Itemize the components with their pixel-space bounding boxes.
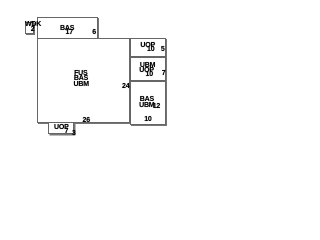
area BAS/UBM right box 3 [130, 81, 166, 125]
area UBM/UOP right box 2 [130, 57, 166, 81]
dim 7 (porch width) [65, 128, 69, 135]
area UOP bottom porch box [48, 122, 74, 134]
label BAS (right box 3) [140, 96, 154, 103]
label UOP (right box 1) [140, 42, 155, 49]
dim 10 (right box 1 width) [147, 46, 154, 53]
dim 7 (right box 2 height) [162, 70, 166, 77]
label UOP (porch) [54, 124, 69, 131]
area BAS top strip [37, 17, 98, 39]
dim 5 (right box 1 height) [161, 46, 165, 53]
dim 24 (main height) [122, 83, 129, 90]
dim 10 (right box 3 width) [144, 116, 151, 123]
area UOP right box 1 [130, 38, 166, 57]
dim 2 (WDK) [31, 26, 35, 33]
label WDK [25, 21, 41, 28]
dim 17 (top strip width) [66, 29, 73, 36]
dim 26 (main width) [83, 117, 90, 124]
label BAS (top strip) [60, 25, 74, 32]
dim 3 (porch height) [72, 130, 76, 137]
area FUS/BAS/UBM main block [37, 38, 130, 123]
label UBM (right box 2) [140, 62, 155, 69]
area WDK small box [25, 22, 35, 34]
label UBM (main) [74, 81, 89, 88]
label FUS (main) [74, 70, 87, 77]
label UOP (right box 2) [139, 67, 154, 74]
dim 6 (top strip height) [92, 29, 96, 36]
dim 10 (right box 2 width) [146, 71, 153, 78]
dim 12 (right box 3 height) [153, 103, 160, 110]
label BAS (main) [74, 75, 88, 82]
label UBM (right box 3) [139, 102, 154, 109]
